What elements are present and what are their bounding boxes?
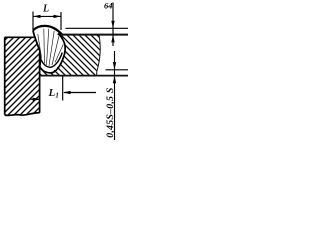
dim line — [34, 15, 61, 17]
right plate hatching — [0, 20, 164, 90]
right plate outline — [40, 35, 128, 76]
dimension L — [33, 12, 61, 31]
left edge — [4, 37, 6, 115]
right arrow — [64, 92, 96, 94]
top edge — [5, 36, 34, 38]
left fusion line — [33, 30, 40, 66]
svg-text:0,45S–0,5 S: 0,45S–0,5 S — [105, 87, 116, 138]
break line — [97, 35, 101, 76]
inner nugget bottom arc — [40, 53, 62, 68]
svg-text:L: L — [42, 4, 49, 15]
right edge — [39, 52, 41, 113]
left arrow — [31, 98, 40, 100]
ext line right — [60, 12, 62, 30]
bottom edge — [40, 75, 128, 77]
svg-text:64: 64 — [104, 0, 113, 10]
ext line left — [32, 12, 34, 31]
weld cap (reinforcement) — [33, 26, 62, 35]
top edge — [62, 34, 128, 36]
left plate hatching — [0, 30, 129, 125]
top reference line (cap top level) — [66, 27, 129, 29]
svg-text:L: L — [48, 87, 56, 99]
left plate outline — [5, 37, 40, 115]
svg-text:1: 1 — [55, 91, 59, 99]
weld metal radial texture lines — [38, 29, 63, 66]
dimension L1 — [31, 76, 97, 101]
arrowheads — [33, 15, 40, 18]
nugget bottom reference line — [106, 69, 129, 71]
bottom break line — [5, 113, 40, 116]
root gap dimension 0,45S-0,5S (outside arrows) — [113, 51, 116, 140]
ext line — [62, 76, 64, 101]
cap height dimension (outside arrows) — [111, 3, 114, 47]
nugget bottom and right fusion line — [40, 34, 65, 73]
